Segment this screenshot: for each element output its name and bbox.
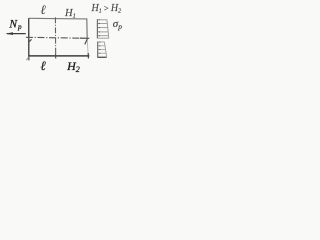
slant edge — [104, 42, 106, 57]
top bar — [98, 19, 107, 21]
lower pressure diagram — [98, 42, 107, 58]
svg-text:H1 > H2: H1 > H2 — [91, 3, 122, 14]
box outline: left edge — [28, 18, 30, 56]
hatch at bottom-left corner — [26, 57, 28, 60]
bottom bar — [98, 56, 107, 58]
svg-text:ℓ: ℓ — [40, 58, 46, 73]
arrows — [98, 23, 107, 25]
wall line — [96, 19, 98, 38]
tick at bottom-right corner — [87, 53, 89, 59]
hatch below ground at right wall — [85, 39, 87, 44]
bottom bar — [97, 37, 108, 39]
tick below bottom-left corner — [28, 56, 30, 60]
box outline: right edge — [86, 18, 88, 39]
svg-text:ℓ: ℓ — [40, 2, 46, 17]
box outline: top edge — [29, 17, 87, 20]
horizontal centerline / ground level (dash-dot) — [26, 36, 80, 39]
wall line — [97, 42, 99, 58]
centerline tick through bottom edge — [55, 54, 57, 59]
ground line segment at right wall — [80, 37, 89, 39]
box outline: right edge lower (faint) — [86, 40, 89, 54]
force arrow Np — [5, 32, 25, 35]
slant edge — [107, 20, 109, 39]
top bar — [98, 41, 104, 43]
vertical centerline (dash-dot) — [54, 17, 56, 58]
arrowheads of upper pressure diagram — [98, 19, 100, 36]
arrowheads of lower pressure diagram — [98, 41, 100, 54]
hatch below ground at left wall — [29, 39, 32, 42]
upper pressure diagram — [97, 19, 108, 38]
box outline: bottom edge — [29, 55, 90, 57]
arrows — [98, 45, 105, 47]
